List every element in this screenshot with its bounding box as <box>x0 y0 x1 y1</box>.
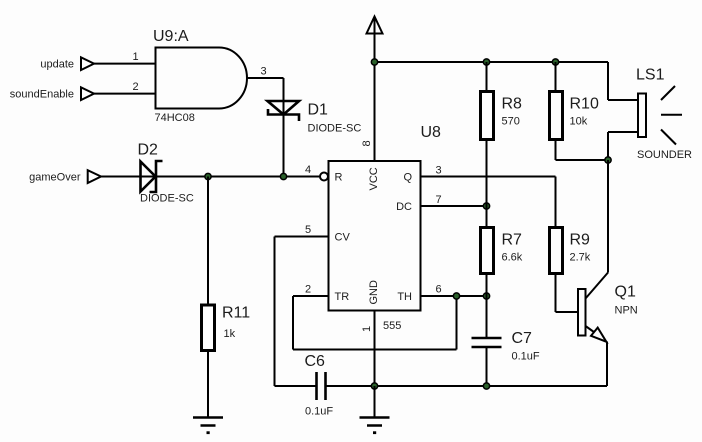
svg-text:R: R <box>335 172 343 184</box>
ground under chip <box>360 418 390 435</box>
svg-text:D2: D2 <box>138 142 159 159</box>
op-amp U9:A AND gate 74HC08 <box>153 28 247 124</box>
node junction TH to R7/C7 <box>483 292 491 300</box>
node junction on rail at x374 <box>371 58 379 66</box>
wire soundEnable to gate pin2 <box>94 93 156 95</box>
svg-text:3: 3 <box>435 165 441 177</box>
transistor Q1 NPN <box>578 273 638 387</box>
svg-text:C7: C7 <box>512 330 533 347</box>
svg-text:6: 6 <box>435 284 441 296</box>
svg-text:soundEnable: soundEnable <box>10 89 74 101</box>
wire R10 bottom to collector node <box>556 140 609 161</box>
svg-text:6.6k: 6.6k <box>502 252 523 264</box>
svg-text:Q: Q <box>403 172 412 184</box>
svg-text:TH: TH <box>397 291 412 303</box>
pin 4 bubble on reset <box>320 173 328 181</box>
svg-text:update: update <box>40 59 74 71</box>
wire D2 cathode to reset pin bubble <box>141 176 320 178</box>
svg-text:0.1uF: 0.1uF <box>512 351 540 363</box>
node junction C7 to rail <box>483 382 491 390</box>
node junction collector net <box>604 156 612 164</box>
svg-text:10k: 10k <box>570 116 588 128</box>
svg-text:C6: C6 <box>305 353 326 370</box>
svg-text:NPN: NPN <box>615 305 638 317</box>
svg-text:R8: R8 <box>502 96 523 113</box>
wire Q pin3 output <box>421 177 556 228</box>
resistor R7 <box>481 228 523 274</box>
svg-text:U9:A: U9:A <box>153 28 189 45</box>
wire DC pin7 <box>421 205 487 207</box>
wire collector node down to Q1 <box>607 160 609 273</box>
power symbol VCC arrow <box>367 17 383 63</box>
node junction at D1 tap <box>280 173 288 181</box>
svg-text:Q1: Q1 <box>615 284 636 301</box>
wire gameOver to D2 <box>101 176 141 178</box>
svg-text:570: 570 <box>502 116 520 128</box>
node junction on rail at x486 <box>483 58 491 66</box>
svg-text:gameOver: gameOver <box>29 172 81 184</box>
diode D2 DIODE-SC <box>138 142 194 205</box>
resistor R9 <box>550 228 591 274</box>
svg-text:74HC08: 74HC08 <box>155 112 195 124</box>
svg-text:TR: TR <box>335 291 350 303</box>
node junction gnd pin to rail <box>371 382 379 390</box>
wire rail bend down to LS1 <box>608 62 638 100</box>
node junction at R11 tap <box>204 173 212 181</box>
svg-text:1k: 1k <box>224 328 236 340</box>
ground under R11 <box>193 418 223 435</box>
wire rail to R8 <box>486 62 488 92</box>
svg-text:R9: R9 <box>570 232 591 249</box>
svg-text:SOUNDER: SOUNDER <box>637 149 692 161</box>
wire CV pin5 to C6 <box>275 237 329 387</box>
svg-text:1: 1 <box>361 326 373 332</box>
node junction TR loop to TH <box>453 292 461 300</box>
svg-text:2.7k: 2.7k <box>570 252 591 264</box>
svg-text:3: 3 <box>260 66 266 78</box>
wire D1 cathode down to net <box>283 101 285 177</box>
wire top power rail <box>375 61 609 63</box>
wire TR pin2 loop to TH <box>293 296 457 350</box>
svg-text:5: 5 <box>305 224 311 236</box>
wire R9 bottom to Q1 base <box>556 274 579 313</box>
input terminal gameOver <box>29 170 101 183</box>
wire GND pin1 down <box>374 311 376 387</box>
capacitor C6 <box>305 353 334 418</box>
diode D1 DIODE-SC <box>268 101 362 135</box>
svg-text:8: 8 <box>361 140 373 146</box>
svg-text:2: 2 <box>132 81 138 93</box>
wire chip gnd stub <box>374 386 376 418</box>
wire R11 bottom to ground <box>207 351 209 418</box>
svg-text:R11: R11 <box>222 305 250 322</box>
svg-text:7: 7 <box>435 194 441 206</box>
svg-text:555: 555 <box>383 320 401 332</box>
resistor R8 <box>481 92 523 140</box>
svg-text:4: 4 <box>305 164 311 176</box>
op-amp U8 555 timer body <box>329 124 442 332</box>
node junction on rail at x555 <box>552 58 560 66</box>
wire update to gate pin1 <box>94 63 156 65</box>
speaker LS1 SOUNDER <box>636 67 692 162</box>
wire R8 to R7 <box>486 140 488 228</box>
wire C7 to ground rail <box>486 347 488 386</box>
wire gate output pin3 <box>247 77 284 79</box>
svg-text:D1: D1 <box>308 102 329 119</box>
wire TH node to C7 <box>486 296 488 338</box>
input terminal soundEnable <box>10 87 94 100</box>
svg-text:0.1uF: 0.1uF <box>305 406 333 418</box>
svg-text:VCC: VCC <box>368 167 380 190</box>
svg-text:LS1: LS1 <box>636 67 665 84</box>
svg-text:U8: U8 <box>421 124 442 141</box>
svg-text:GND: GND <box>368 280 380 305</box>
resistor R10 <box>550 92 599 140</box>
wire TH pin6 <box>421 295 487 297</box>
svg-text:DIODE-SC: DIODE-SC <box>308 123 362 135</box>
input terminal update <box>40 57 94 70</box>
wire pin8 VCC to chip <box>374 62 376 161</box>
capacitor C7 <box>472 330 540 363</box>
wire LS1 bottom to collector node <box>608 132 638 160</box>
node junction DC to R8/R7 <box>483 202 491 210</box>
svg-text:1: 1 <box>132 51 138 63</box>
svg-text:DC: DC <box>396 201 412 213</box>
wire gate output down to D1 <box>283 78 285 101</box>
wire R11 top <box>207 177 209 306</box>
resistor R11 <box>202 305 251 351</box>
svg-text:R10: R10 <box>570 96 599 113</box>
svg-text:R7: R7 <box>502 232 523 249</box>
wire R7 to TH node <box>486 274 488 297</box>
svg-text:DIODE-SC: DIODE-SC <box>140 193 194 205</box>
svg-text:CV: CV <box>335 232 351 244</box>
wire rail to R10 <box>555 62 557 92</box>
wire bottom ground rail <box>326 385 608 387</box>
svg-text:2: 2 <box>305 284 311 296</box>
